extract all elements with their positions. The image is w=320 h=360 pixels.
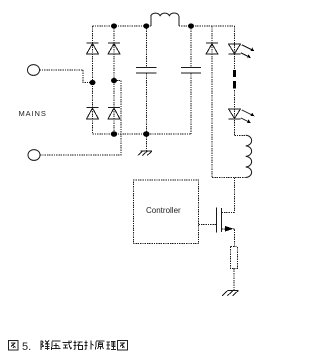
svg-text:5.: 5. (22, 341, 31, 353)
svg-text:MAINS: MAINS (19, 109, 47, 118)
svg-text:Controller: Controller (146, 206, 181, 215)
